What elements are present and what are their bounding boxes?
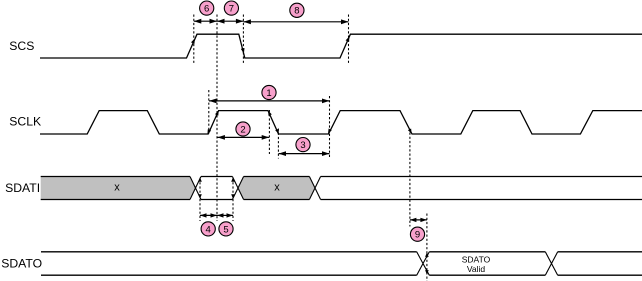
- node SDATI gray segment 2: [238, 177, 315, 200]
- svg-text:6: 6: [204, 3, 209, 14]
- arrow t2: [217, 135, 269, 140]
- svg-text:9: 9: [415, 230, 420, 241]
- arrow t4: [200, 213, 217, 217]
- svg-text:SDATI: SDATI: [5, 181, 40, 195]
- svg-text:SDATO: SDATO: [462, 254, 491, 264]
- tick on SCLK rise2 top: [215, 110, 219, 115]
- svg-text:2: 2: [240, 124, 245, 135]
- svg-text:8: 8: [294, 6, 299, 17]
- dashed ref line G at SCLK rise2 base: [208, 90, 210, 134]
- tick down on SDATI dash K: [198, 194, 202, 198]
- arrow t5: [217, 213, 233, 217]
- wire SCLK waveform: [40, 111, 642, 134]
- dashed ref line J at SCLK rise3 base: [329, 96, 331, 159]
- svg-text:SDATO: SDATO: [1, 257, 42, 271]
- tick up on SDATI dash K: [198, 177, 202, 181]
- callout circle 5: [219, 222, 233, 236]
- node SDATI gray segment 1: [41, 177, 196, 200]
- tick up on SDATI dash M: [231, 177, 235, 181]
- tick on SCLK fall3 base: [408, 129, 412, 134]
- tick up on SDATO dash F: [425, 253, 429, 257]
- callout circle 1: [262, 85, 276, 99]
- arrow t1: [209, 99, 330, 104]
- dashed ref line E at SCLK fall3 base: [409, 133, 411, 227]
- dashed ref line A at SCS rise: [193, 15, 195, 64]
- tick on SCLK rise2 base: [207, 129, 211, 134]
- svg-text:SCLK: SCLK: [9, 115, 41, 129]
- dashed ref line H at SCLK fall2 top: [268, 110, 270, 154]
- callout circle 7: [224, 1, 238, 15]
- svg-text:3: 3: [300, 140, 305, 151]
- svg-text:4: 4: [206, 224, 211, 235]
- wire SDATI top rail: [41, 176, 642, 178]
- node SDATI crossover X1: [190, 177, 201, 200]
- tick down on SDATI dash M: [231, 194, 235, 198]
- callout circle 6: [200, 1, 214, 15]
- tick down on SDATO dash F: [425, 270, 429, 274]
- callout circle 2: [236, 122, 250, 136]
- dashed ref line D at SCS rise2: [348, 15, 350, 64]
- dashed ref line I at SCLK fall2 base: [277, 129, 279, 159]
- arrow t6: [194, 19, 217, 24]
- wire SDATI bottom rail: [41, 199, 642, 201]
- tick on SCS rise2: [346, 36, 350, 42]
- svg-text:x: x: [274, 182, 280, 194]
- svg-text:7: 7: [229, 3, 234, 14]
- callout circle 3: [296, 138, 310, 152]
- tick on SCLK fall2 base: [275, 129, 279, 134]
- callout circle 4: [201, 222, 215, 236]
- dashed ref line C at SCS fall: [242, 15, 244, 64]
- dashed ref line B central: [216, 15, 218, 222]
- dashed ref line K at SDATI X1: [199, 178, 201, 221]
- svg-text:1: 1: [266, 88, 271, 99]
- tick on SCLK fall2 top: [268, 111, 272, 116]
- tick on SCLK rise3 base: [328, 129, 332, 134]
- arrow t9: [410, 218, 427, 222]
- node SDATI crossover X3: [309, 177, 320, 200]
- dashed ref line M at SDATI X2: [232, 178, 234, 221]
- svg-text:Valid: Valid: [467, 264, 486, 274]
- wire SDATO bottom rail: [41, 274, 642, 276]
- arrow t3: [279, 151, 330, 156]
- svg-text:5: 5: [223, 224, 228, 235]
- wire SDATO top rail: [41, 251, 642, 253]
- node SDATO crossover X5: [545, 252, 557, 275]
- wire SCS waveform: [40, 34, 642, 58]
- node SDATI crossover X2: [232, 177, 243, 200]
- callout circle 8: [290, 3, 304, 17]
- svg-text:SCS: SCS: [9, 39, 34, 53]
- arrow t7: [217, 19, 243, 24]
- tick on SCS rise1: [191, 38, 195, 44]
- callout circle 9: [410, 227, 424, 241]
- tick on SCS fall1: [241, 48, 245, 54]
- arrow t8: [243, 19, 348, 24]
- dashed ref line F at SDATO transition: [426, 214, 428, 281]
- svg-text:x: x: [114, 182, 120, 194]
- node SDATO crossover X4: [417, 252, 430, 275]
